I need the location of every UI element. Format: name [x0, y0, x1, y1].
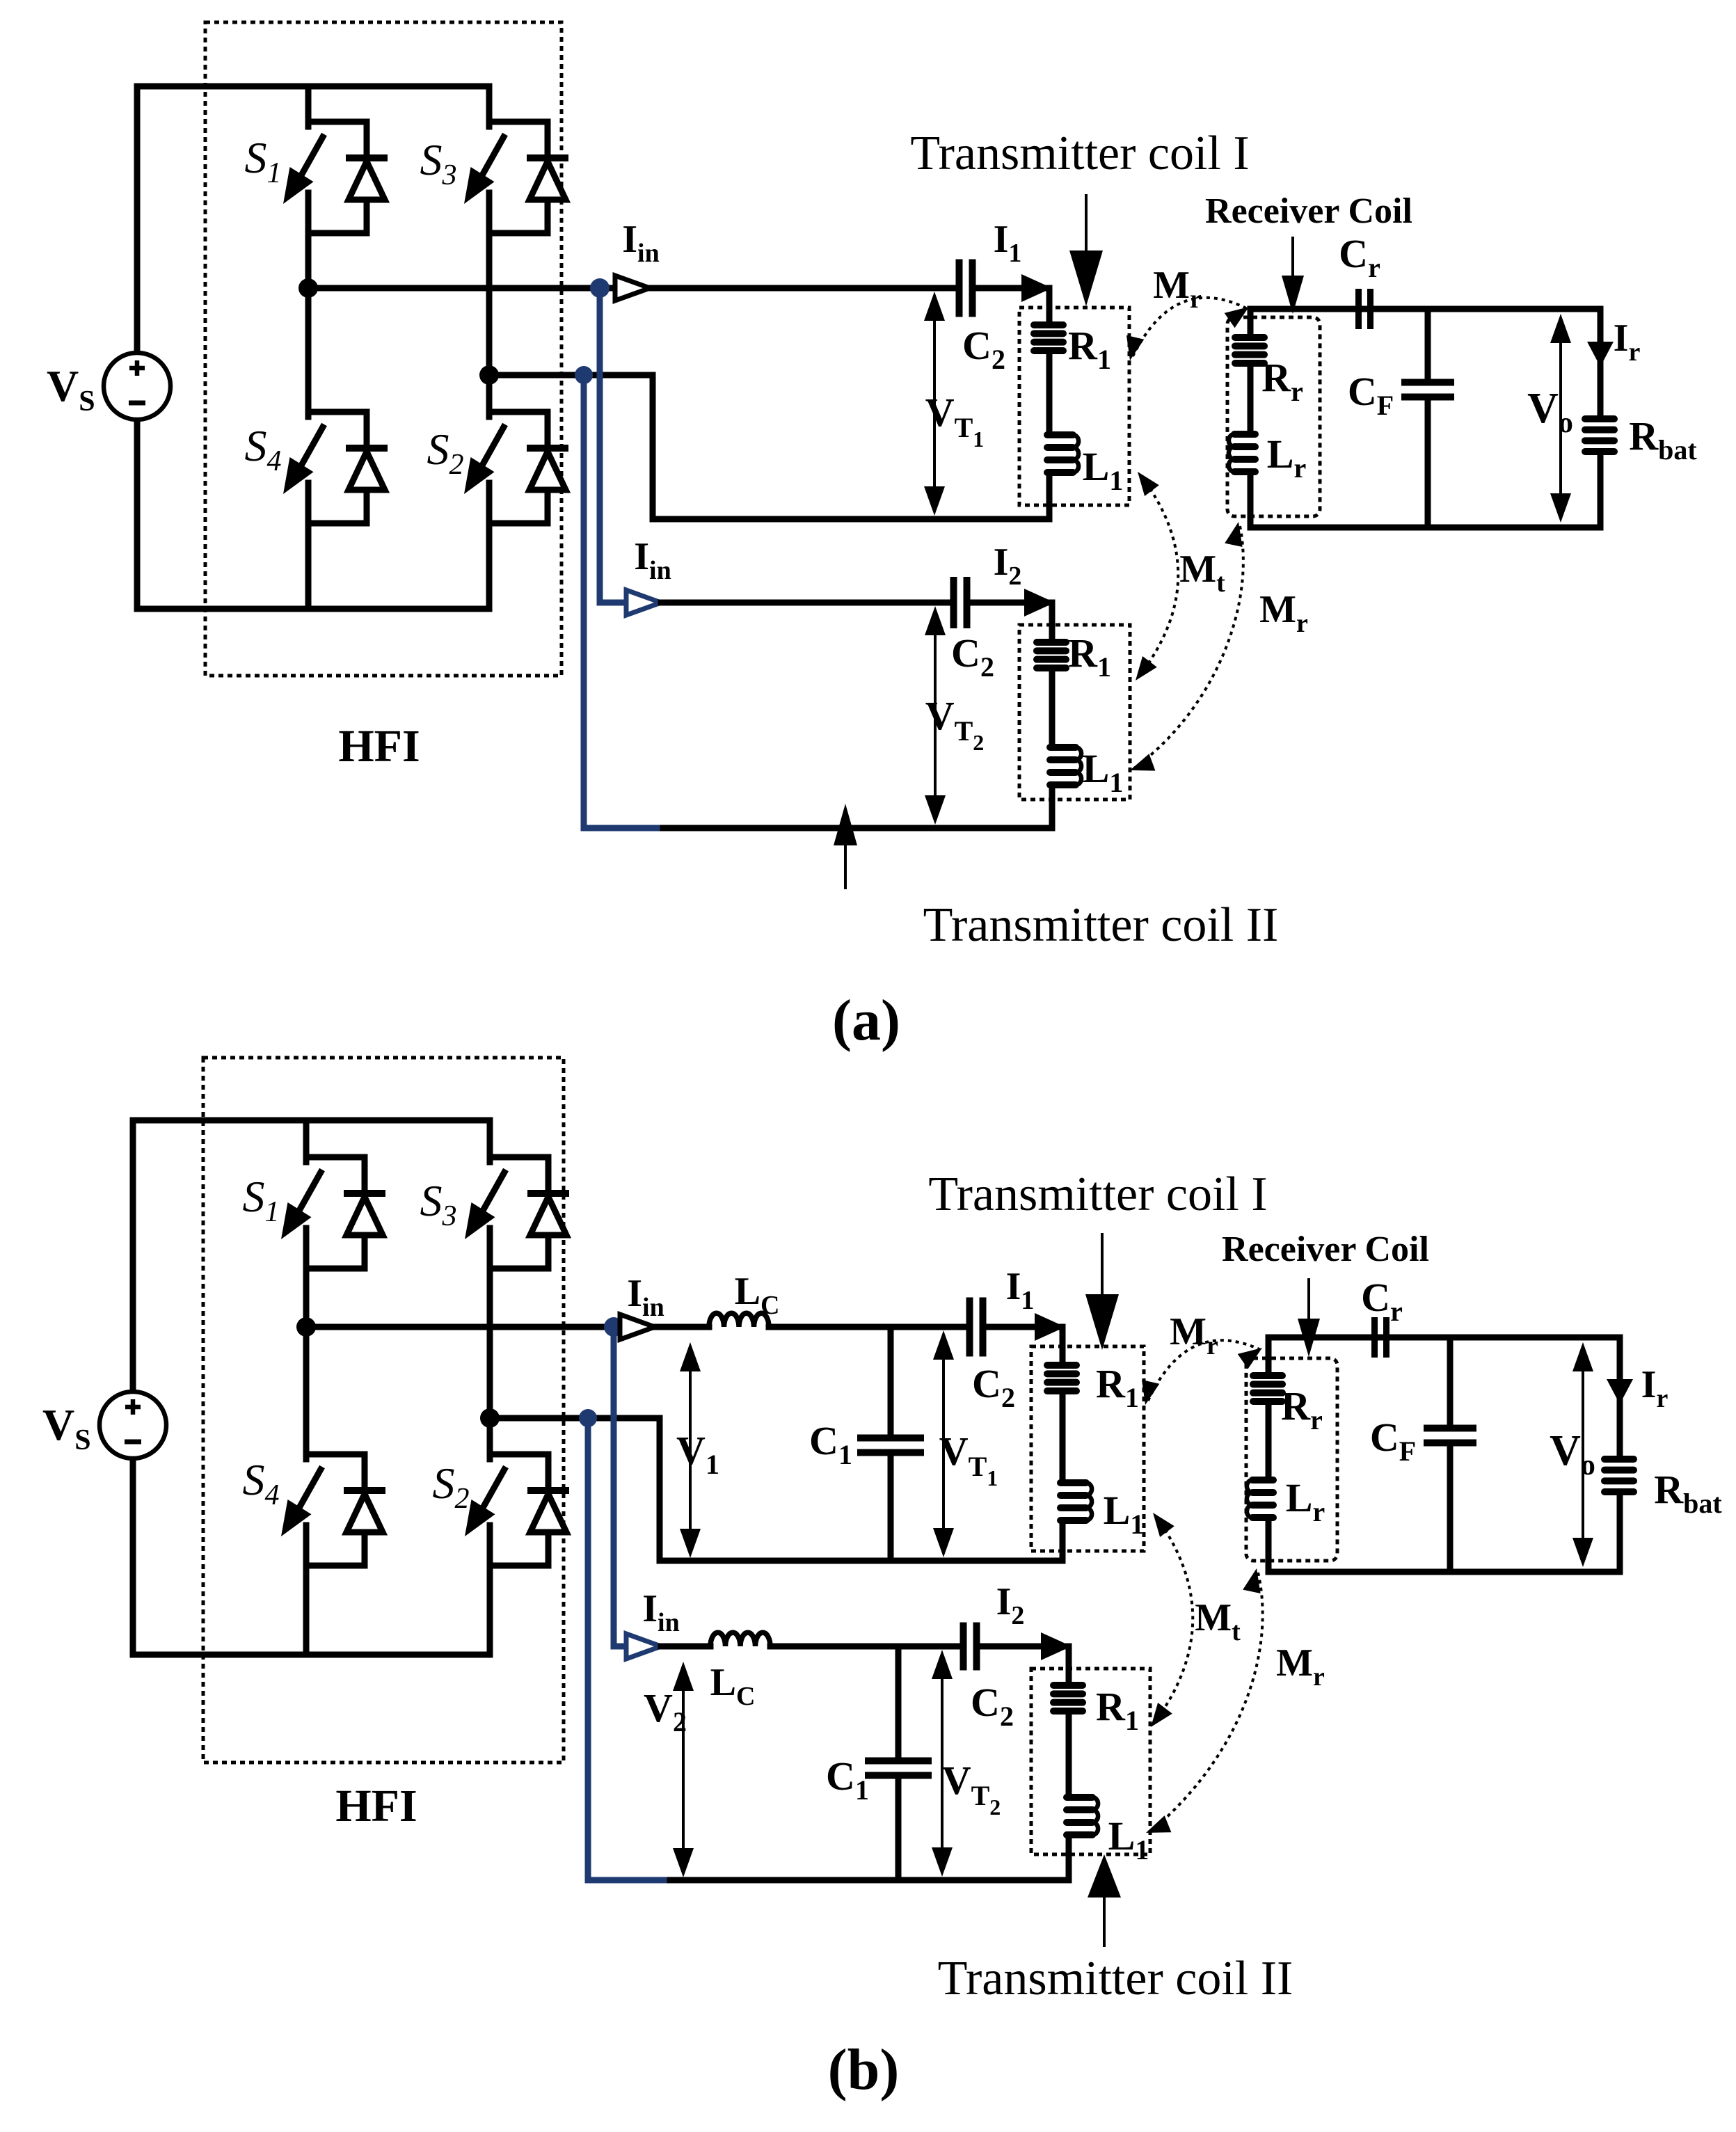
- transistor switch S3 with diode: [489, 119, 548, 125]
- svg-text:Transmitter coil I: Transmitter coil I: [928, 1168, 1267, 1221]
- wire: C1 branch1 upper lead: [888, 1327, 894, 1438]
- wire: branch1 return bottom: [660, 1558, 1062, 1564]
- wire: S2 lower lead: [487, 1566, 493, 1655]
- wire: branch1 C2 to coil: [976, 285, 1049, 292]
- wire: branch1 return bottom: [653, 516, 1049, 523]
- wire: CF lower lead: [1447, 1443, 1454, 1572]
- wire: receiver left top lead: [1266, 1337, 1272, 1372]
- svg-text:Iin: Iin: [642, 1587, 680, 1637]
- svg-text:V1: V1: [676, 1428, 719, 1480]
- wire: branch1 from node1: [308, 285, 616, 292]
- capacitor Cr: [1371, 1317, 1378, 1358]
- svg-text:C1: C1: [809, 1418, 852, 1470]
- wire (blue): branch2 feed vertical: [597, 288, 603, 603]
- wire: branch1 coil bottom lead: [1046, 476, 1053, 519]
- svg-text:R1: R1: [1068, 323, 1111, 375]
- dimension arrow Vo: [1582, 1360, 1584, 1550]
- dimension arrow VT1: [942, 1348, 945, 1540]
- resistor R1 branch1: [1034, 321, 1063, 328]
- svg-text:Receiver Coil: Receiver Coil: [1222, 1230, 1429, 1269]
- svg-text:C2: C2: [972, 1361, 1015, 1413]
- wire: branch2 C2 to coil: [971, 600, 1052, 606]
- wire: branch2 triangle to C2: [661, 600, 950, 606]
- current arrow Iin branch2 (blue open triangle): [626, 1634, 661, 1659]
- current arrow Iin branch1 (open triangle): [620, 1314, 655, 1339]
- wire: branch1 coil top lead: [1060, 1327, 1066, 1362]
- dashed box: transmitter coil I: [1031, 1346, 1144, 1551]
- wire: S3 upper lead: [486, 86, 493, 122]
- wire: S3 upper lead: [487, 1120, 493, 1157]
- wire: receiver bottom: [1250, 525, 1600, 531]
- wire: branch2 coil top lead: [1066, 1646, 1072, 1682]
- svg-text:R1: R1: [1096, 1361, 1139, 1413]
- wire: branch1 from node1: [306, 1324, 621, 1330]
- dimension arrow Vo: [1559, 331, 1562, 505]
- wire: receiver top: [1268, 1335, 1620, 1341]
- transistor switch S1 with diode: [308, 119, 367, 125]
- wire: branch1 triangle to C2: [650, 285, 955, 292]
- current arrow Ir (filled, down): [1587, 342, 1614, 367]
- svg-text:S1: S1: [245, 133, 282, 189]
- wire: CF lower lead: [1425, 397, 1431, 527]
- wire: receiver left bottom lead: [1248, 475, 1254, 527]
- current arrow I2 (filled): [1041, 1632, 1072, 1660]
- voltage source VS: [104, 353, 170, 420]
- svg-text:R1: R1: [1096, 1684, 1139, 1736]
- wire: DC left rail upper: [134, 86, 141, 353]
- svg-text:Iin: Iin: [622, 218, 660, 268]
- svg-text:C2: C2: [951, 630, 994, 683]
- wire: branch2 Lc to C2: [770, 1644, 959, 1650]
- svg-text:Rr: Rr: [1281, 1383, 1323, 1435]
- capacitor Cr: [1355, 289, 1362, 329]
- wire: DC bottom bus: [137, 606, 489, 612]
- svg-text:V2: V2: [644, 1685, 687, 1737]
- svg-text:S1: S1: [243, 1172, 280, 1228]
- node: bridge leg A output: [298, 278, 318, 298]
- wire: branch2 return bottom: [657, 825, 1052, 832]
- transistor switch S4 with diode: [306, 1451, 365, 1458]
- svg-text:Iin: Iin: [627, 1272, 664, 1322]
- svg-text:S4: S4: [245, 421, 282, 477]
- wire: branch1 R1-L1: [1060, 1394, 1066, 1479]
- node: branch2 blue tap on branch1: [590, 278, 610, 298]
- svg-text:Ir: Ir: [1641, 1363, 1669, 1413]
- capacitor C2 branch1: [966, 1298, 973, 1357]
- capacitor C2 branch2: [950, 577, 957, 628]
- capacitor CF: [1424, 1425, 1476, 1432]
- current arrow I1 (filled): [1035, 1313, 1065, 1341]
- wire (blue): branch2 feed vertical: [611, 1327, 617, 1646]
- wire: branch1 R1-L1: [1046, 354, 1053, 431]
- node: bridge leg A output: [296, 1317, 316, 1337]
- wire: receiver left top lead: [1248, 309, 1254, 334]
- arrow to transmitter coil I: [1101, 1234, 1104, 1301]
- svg-text:CF: CF: [1370, 1415, 1416, 1467]
- resistor Rr: [1235, 334, 1264, 341]
- arrow to transmitter coil II: [1103, 1892, 1106, 1946]
- inductor L1 branch2: [1067, 1794, 1092, 1801]
- wire: receiver bottom: [1268, 1569, 1620, 1575]
- wire: receiver right top lead: [1617, 1337, 1623, 1456]
- wire: branch2 coil top lead: [1049, 603, 1056, 639]
- svg-text:Rr: Rr: [1261, 355, 1303, 407]
- mutual coupling arc Mr (bottom): [1152, 1573, 1263, 1830]
- svg-text:(a): (a): [832, 988, 900, 1053]
- wire: branch2 R1-L1: [1049, 671, 1056, 744]
- wire: branch1 Lc to C2: [769, 1324, 966, 1330]
- wire: branch2 coil bottom lead: [1049, 788, 1056, 828]
- svg-text:S2: S2: [427, 424, 464, 481]
- svg-text:L1: L1: [1083, 444, 1124, 496]
- resistor R1 branch1: [1047, 1362, 1076, 1369]
- inductor Lr: [1252, 1477, 1273, 1483]
- svg-text:I1: I1: [994, 218, 1022, 268]
- svg-text:VT2: VT2: [942, 1758, 1001, 1820]
- wire: receiver right bottom lead: [1598, 455, 1604, 527]
- dashed box: transmitter coil I: [1019, 308, 1129, 505]
- wire: receiver top: [1250, 306, 1600, 312]
- wire: S4 lower lead: [303, 1566, 310, 1655]
- node: branch2 blue tap on branch1: [604, 1317, 623, 1337]
- wire: node2 to riser: [490, 1415, 660, 1422]
- svg-text:Mr: Mr: [1276, 1641, 1325, 1692]
- wire: branch2 coil bottom lead: [1066, 1838, 1072, 1880]
- svg-text:CF: CF: [1348, 369, 1394, 421]
- svg-text:Transmitter coil II: Transmitter coil II: [938, 1952, 1293, 2005]
- wire: C1 branch2 lower lead: [895, 1776, 902, 1880]
- wire: DC bottom bus: [133, 1652, 490, 1658]
- svg-text:VS: VS: [42, 1400, 91, 1456]
- wire: DC top bus: [133, 1117, 490, 1124]
- svg-text:Transmitter coil II: Transmitter coil II: [923, 898, 1279, 952]
- current arrow Iin branch1 (open triangle): [615, 276, 650, 301]
- transistor switch S4 with diode: [308, 409, 367, 415]
- wire: branch2 return bottom: [664, 1877, 1069, 1884]
- arrow to receiver coil: [1291, 238, 1294, 278]
- svg-text:(b): (b): [828, 2037, 900, 2102]
- wire: S3-S2 mid (node2 column): [487, 1268, 493, 1454]
- dashed box: receiver coil: [1246, 1358, 1337, 1561]
- svg-text:L1: L1: [1104, 1488, 1145, 1540]
- mutual coupling arc Mr (bottom): [1134, 526, 1243, 768]
- capacitor CF: [1401, 379, 1454, 386]
- wire: S4 lower lead: [305, 523, 312, 609]
- dashed box: transmitter coil II: [1019, 625, 1130, 799]
- wire: receiver right top lead: [1598, 309, 1604, 415]
- svg-text:I2: I2: [996, 1580, 1025, 1630]
- dimension arrow VT1: [933, 309, 936, 498]
- svg-text:Iin: Iin: [634, 535, 671, 585]
- svg-text:S3: S3: [420, 1176, 457, 1232]
- svg-text:Mt: Mt: [1179, 548, 1225, 598]
- mutual coupling arc Mt: [1154, 1517, 1193, 1723]
- mutual coupling arc Mr (top): [1148, 1340, 1259, 1401]
- wire: DC left rail lower: [130, 1458, 136, 1655]
- svg-text:Vo: Vo: [1550, 1427, 1595, 1481]
- inductor Lc branch1: [709, 1313, 769, 1327]
- svg-text:LC: LC: [735, 1270, 780, 1320]
- wire: DC top bus: [137, 83, 489, 90]
- svg-text:I2: I2: [994, 541, 1022, 591]
- node: bridge leg B output: [479, 365, 499, 385]
- dimension arrow V1: [689, 1360, 692, 1541]
- arrow to transmitter coil I: [1085, 196, 1088, 257]
- svg-text:S2: S2: [433, 1458, 470, 1515]
- dashed box: receiver coil: [1227, 317, 1320, 516]
- HFI inverter dashed box: [203, 1058, 564, 1763]
- current arrow I1 (filled): [1021, 274, 1052, 302]
- svg-text:I1: I1: [1006, 1265, 1035, 1315]
- resistor R1 branch2: [1037, 639, 1066, 646]
- wire: S1-S4 mid (node1 column): [305, 233, 312, 412]
- inductor Lc branch2: [710, 1632, 770, 1646]
- wire: receiver left bottom lead: [1266, 1521, 1272, 1572]
- node: branch2 blue tap on node2 wire: [575, 366, 593, 384]
- transistor switch S1 with diode: [306, 1154, 365, 1161]
- svg-text:HFI: HFI: [335, 1781, 417, 1831]
- inductor L1 branch2: [1050, 744, 1076, 751]
- wire: S1 upper lead: [303, 1120, 310, 1157]
- transistor switch S3 with diode: [490, 1154, 548, 1161]
- svg-text:Rbat: Rbat: [1654, 1467, 1722, 1519]
- wire (blue): branch2 return to node2: [588, 1877, 664, 1884]
- svg-text:Vo: Vo: [1527, 385, 1573, 439]
- wire: DC left rail lower: [134, 420, 141, 609]
- wire: S1 upper lead: [305, 86, 312, 122]
- wire: node2 to riser: [489, 372, 653, 379]
- wire: CF upper lead: [1447, 1337, 1454, 1428]
- resistor Rbat: [1585, 415, 1614, 422]
- dashed box: transmitter coil II: [1031, 1669, 1150, 1854]
- capacitor C2 branch2: [960, 1623, 967, 1671]
- svg-text:Mr: Mr: [1153, 264, 1202, 314]
- current arrow Ir (filled, down): [1607, 1379, 1633, 1404]
- dimension arrow VT2: [934, 623, 937, 807]
- svg-text:Lr: Lr: [1267, 431, 1306, 484]
- wire: DC left rail upper: [130, 1120, 136, 1392]
- resistor Rbat: [1604, 1456, 1634, 1463]
- wire: branch1 coil top lead: [1046, 288, 1053, 321]
- arrow to receiver coil: [1307, 1280, 1310, 1321]
- svg-text:Mt: Mt: [1195, 1596, 1241, 1646]
- svg-text:Mr: Mr: [1170, 1310, 1218, 1360]
- svg-text:Transmitter coil I: Transmitter coil I: [910, 127, 1249, 180]
- node: bridge leg B output: [480, 1408, 500, 1428]
- svg-text:LC: LC: [710, 1661, 756, 1711]
- svg-text:Cr: Cr: [1339, 231, 1380, 283]
- svg-text:C1: C1: [826, 1753, 869, 1806]
- resistor R1 branch2: [1053, 1682, 1083, 1689]
- svg-text:C2: C2: [971, 1680, 1014, 1732]
- inductor Lr: [1234, 431, 1255, 438]
- transistor switch S2 with diode: [489, 409, 548, 415]
- transistor switch S2 with diode: [490, 1451, 548, 1458]
- dimension arrow V2: [682, 1679, 685, 1860]
- wire: branch1 coil bottom lead: [1060, 1524, 1066, 1561]
- wire: branch1 return riser: [657, 1418, 663, 1561]
- wire: branch2 triangle to Lc: [661, 1644, 710, 1650]
- wire: receiver Rr-Lr: [1266, 1405, 1272, 1477]
- capacitor C1 branch2: [865, 1758, 932, 1765]
- capacitor C1 branch1: [857, 1435, 924, 1442]
- capacitor C2 branch1: [956, 260, 963, 317]
- svg-text:Cr: Cr: [1361, 1275, 1403, 1327]
- HFI inverter dashed box: [205, 22, 562, 676]
- voltage source VS: [99, 1392, 166, 1458]
- wire: CF upper lead: [1425, 309, 1431, 382]
- dimension arrow VT2: [941, 1667, 943, 1859]
- svg-text:R1: R1: [1068, 630, 1111, 683]
- mutual coupling arc Mt: [1139, 476, 1178, 676]
- wire: S1-S4 mid (node1 column): [303, 1268, 310, 1454]
- wire: S2 lower lead: [486, 523, 493, 609]
- mutual coupling arc Mr (top): [1133, 298, 1246, 356]
- wire: branch1 return riser: [650, 375, 656, 519]
- svg-text:Receiver Coil: Receiver Coil: [1205, 191, 1412, 231]
- svg-text:Rbat: Rbat: [1629, 413, 1697, 466]
- wire: receiver Rr-Lr: [1248, 367, 1254, 431]
- svg-text:C2: C2: [962, 323, 1005, 375]
- wire: C1 branch1 lower lead: [888, 1453, 894, 1561]
- wire: C1 branch2 upper lead: [895, 1646, 902, 1760]
- svg-text:VS: VS: [47, 361, 95, 417]
- wire: branch2 C2 to coil: [980, 1644, 1069, 1650]
- svg-text:L1: L1: [1108, 1813, 1149, 1865]
- svg-text:L1: L1: [1083, 746, 1124, 798]
- wire: receiver right bottom lead: [1617, 1495, 1623, 1572]
- wire: branch1 C2 to coil: [987, 1324, 1062, 1330]
- wire: S3-S2 mid (node2 column): [486, 233, 493, 412]
- svg-text:HFI: HFI: [338, 721, 420, 772]
- resistor Rr: [1253, 1372, 1282, 1379]
- wire: branch2 R1-L1: [1066, 1715, 1072, 1794]
- svg-text:Lr: Lr: [1286, 1475, 1325, 1527]
- node: branch2 blue tap on node2 wire: [579, 1409, 597, 1427]
- inductor L1 branch1: [1047, 431, 1073, 438]
- current arrow Iin branch2 (blue open triangle): [626, 590, 661, 615]
- svg-text:VT1: VT1: [939, 1429, 998, 1490]
- svg-text:S3: S3: [420, 135, 457, 191]
- current arrow I2 (filled): [1024, 589, 1055, 616]
- wire (blue): branch2 return to node2: [584, 825, 657, 832]
- svg-text:Mr: Mr: [1259, 588, 1308, 638]
- svg-text:Ir: Ir: [1614, 317, 1641, 367]
- svg-text:S4: S4: [243, 1455, 280, 1511]
- arrow to transmitter coil II: [844, 840, 847, 888]
- wire: branch1 triangle to Lc: [655, 1324, 709, 1330]
- inductor L1 branch1: [1060, 1479, 1086, 1486]
